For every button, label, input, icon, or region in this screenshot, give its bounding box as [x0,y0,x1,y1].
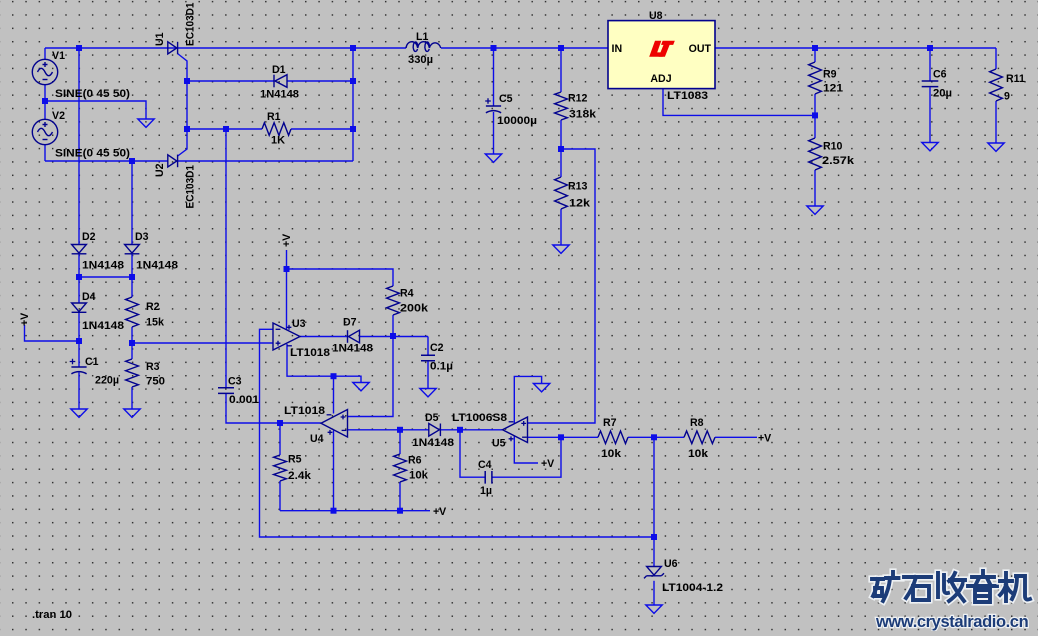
ground C1 [71,409,87,417]
wire divider tap to U5 +input [528,149,596,423]
svg-text:R3: R3 [146,361,160,373]
wire D3 to node [131,254,133,277]
svg-text:1N4148: 1N4148 [82,260,124,272]
wire R12 top lead [560,48,562,92]
diode D5 [429,424,441,437]
wire R1 row left [187,128,262,130]
wire C4 to U5 -input node [492,437,561,477]
wire R2/R3 node to U3 +input [132,342,273,344]
svg-text:R12: R12 [568,93,588,105]
svg-text:D7: D7 [343,317,357,329]
resistor R1 [262,123,291,136]
capacitor C5 plates [486,106,501,113]
wire top rail left (V1 to L1) [45,47,406,49]
node D2-D4 [76,274,82,280]
wire +V flag to U3 V+ [286,250,288,269]
svg-text:C3: C3 [228,376,242,388]
capacitor C1 plates [71,367,86,374]
svg-text:R7: R7 [603,417,617,429]
wire output node to C4 [460,430,485,477]
LT logo [649,41,675,57]
wire C5 top lead [493,48,495,106]
node D5/C4 [457,427,463,433]
svg-text:U6: U6 [664,558,678,570]
diode D3 [125,245,140,254]
svg-text:R5: R5 [288,454,302,466]
watermark crystalradio logo [872,572,901,601]
wire bottom rail (U2 to right) [178,160,353,162]
wire node to C1 [78,341,80,367]
diode D2 [72,245,87,254]
wire C2 top lead [427,337,429,356]
wire R11 to ground [995,101,997,143]
svg-text:www.crystalradio.cn: www.crystalradio.cn [875,613,1029,631]
wire R8 to +V flag [715,436,757,438]
op-amp U5 [503,417,528,443]
wire rail to U6 [653,537,655,566]
svg-text:0.001: 0.001 [229,394,259,406]
wire R2 to node [131,327,133,343]
svg-text:LT1083: LT1083 [667,90,708,102]
ground C2 [420,389,436,397]
diode D4 [72,303,87,312]
svg-text:D1: D1 [272,64,286,76]
svg-text:C5: C5 [499,93,513,105]
diode D7 [348,330,360,343]
svg-text:12k: 12k [569,198,590,210]
resistor R10 [809,138,822,170]
capacitor C4 [485,471,492,484]
node reference rail [651,534,657,540]
svg-text:U4: U4 [310,433,324,445]
wire U5 V- to ground [514,376,541,424]
C5 polarity mark [485,98,491,104]
resistor R6 [394,454,407,482]
node R6 [397,427,403,433]
wire R5 bottom lead [279,481,281,511]
svg-text:EC103D1: EC103D1 [185,165,197,209]
svg-text:LT1018: LT1018 [290,347,330,359]
wire node to D4 [78,277,80,303]
voltage source V2 [32,119,57,144]
wire top rail (L1 to U8 IN) [441,47,608,49]
wire node to R3 [131,343,133,359]
svg-text:+V: +V [19,313,31,326]
wire R13 to ground [560,209,562,245]
svg-text:121: 121 [823,83,843,95]
node V1-V2 [42,98,48,104]
wire x=132 to D3 [131,161,133,245]
svg-text:+V: +V [758,433,771,445]
svg-text:+V: +V [433,506,446,518]
wire C6 top lead [929,48,931,81]
op-amp U3 [273,323,300,350]
svg-text:R1: R1 [267,111,281,123]
ground C5 [485,154,501,162]
wire +V rail bottom [280,510,430,512]
node D1 right [350,78,356,84]
wire D4 to node [78,313,80,341]
svg-text:+V: +V [281,234,293,247]
svg-text:+V: +V [541,458,554,470]
wire R13 top lead [560,149,562,177]
svg-text:C2: C2 [430,342,444,354]
svg-text:1K: 1K [271,135,285,147]
capacitor C2 plates [421,355,435,361]
wire x=226 down to C3 [225,129,227,388]
wire C2 to ground [427,361,429,389]
wire R11 top lead [995,48,997,69]
svg-text:10000µ: 10000µ [497,115,537,127]
wire V2 top lead [44,101,46,120]
node +V distribution [284,266,290,272]
node +V/C1 [76,338,82,344]
wire U4 -input to D5 [348,429,429,431]
SCR U2 [168,155,178,168]
node U5 -in/C4/R7 [558,434,564,440]
svg-text:220µ: 220µ [95,375,119,387]
svg-text:ADJ: ADJ [650,73,671,85]
wire R9 bottom lead [814,94,816,115]
wire U6 to ground [653,581,655,605]
wire U8 ADJ to R9/R10 node [663,89,815,115]
wire U3 V+ pin [286,269,288,330]
svg-text:750: 750 [146,376,165,388]
ground U3/U4 power [353,383,369,391]
wire R4 bottom lead [392,315,394,336]
op-amp U4 [321,410,348,438]
svg-text:C4: C4 [478,459,492,471]
wire D1 row left [187,80,274,82]
svg-text:R8: R8 [690,417,704,429]
svg-text:1N4148: 1N4148 [260,89,299,101]
svg-text:V2: V2 [52,110,65,122]
resistor R11 [990,69,1003,101]
wire R7 to R8 [628,436,684,438]
wire U4 V+ pin to +V rail [333,431,335,511]
wire R10 to ground [814,170,816,206]
svg-text:R4: R4 [400,288,414,300]
svg-text:L1: L1 [416,31,428,43]
wire C5 to ground [493,112,495,154]
svg-text:R13: R13 [568,181,588,193]
wire R9 top lead [814,48,816,62]
svg-text:IN: IN [612,43,623,55]
C1 polarity mark [70,359,76,365]
resistor R5 [274,455,287,481]
regulator U8 LT1083 body [608,21,715,89]
wire V1-V2 midpoint to ground [45,101,146,119]
wire C1 to ground [78,373,80,410]
svg-text:LT1006S8: LT1006S8 [452,412,507,424]
svg-text:0.1µ: 0.1µ [430,361,453,373]
node ADJ/R9/R10 [812,112,818,118]
wire V1 top lead [44,48,46,60]
wire R5 top lead [279,423,281,455]
wire U5 -input to R7 [528,436,599,438]
svg-text:.tran 10: .tran 10 [32,609,72,621]
ground R11 [988,143,1004,151]
svg-text:R11: R11 [1006,73,1025,85]
resistor R2 [126,297,139,327]
voltage source V1 [32,59,57,84]
wire U5 V+ to +V flag [514,436,538,464]
wire +V flag to C1 node [25,325,80,341]
svg-text:U8: U8 [649,10,663,22]
wire feedback node to U4 +input [348,336,394,417]
wire C3 bottom to U4 output node [226,393,280,423]
wire U3 V- to ground [287,344,361,383]
capacitor C6 plates [922,81,939,87]
node R1 right [350,126,356,132]
svg-text:SINE(0 45 50): SINE(0 45 50) [55,148,130,160]
svg-text:15k: 15k [146,317,164,329]
wire D2 to node [78,254,80,277]
wire D1 row right [287,80,353,82]
wire R1 row right [291,128,353,130]
svg-text:1N4148: 1N4148 [82,320,124,332]
svg-text:D4: D4 [82,291,96,303]
wire U3 -input down to reference rail [260,329,655,537]
wire D7 to R4/C2 node [360,336,429,338]
svg-text:LT1018: LT1018 [284,405,325,417]
node gate/D1 [184,78,190,84]
wire node to R10 [814,115,816,138]
wire U4 output [280,422,321,424]
svg-text:EC103D1: EC103D1 [185,2,197,46]
wire U4 V- pin [333,376,335,413]
node D3-R2 [129,274,135,280]
node gate/R1 [184,126,190,132]
node R12-R13 [558,146,564,152]
svg-text:1N4148: 1N4148 [136,260,178,272]
svg-text:R9: R9 [823,69,837,81]
ground R3 [124,409,140,417]
wire +V to R4 top [287,269,394,286]
svg-text:330µ: 330µ [408,54,433,66]
ground R13 [553,245,569,253]
resistor R12 [555,92,568,120]
node R4/D7/C2 [390,333,396,339]
node D3 tap [129,158,135,164]
inductor L1 [406,42,441,52]
svg-text:C1: C1 [85,356,99,368]
ground C6 [922,143,938,151]
resistor R9 [809,62,822,94]
svg-text:10k: 10k [409,470,428,482]
wire U3 output to D7 [300,336,348,338]
svg-text:9: 9 [1004,91,1010,103]
node R6 rail [397,508,403,514]
wire bottom rail (V2 to U2) [45,160,168,162]
node R7/R8 [651,434,657,440]
wire R3 to ground [131,387,133,409]
svg-text:R10: R10 [823,141,843,153]
wire top rail (U8 OUT to R11) [715,47,996,49]
svg-text:OUT: OUT [689,43,712,55]
resistor R7 [598,431,628,444]
wire x=79 top to D2 [78,48,80,245]
svg-text:D5: D5 [425,412,439,424]
svg-text:R2: R2 [146,301,160,313]
svg-text:D2: D2 [82,231,96,243]
node top-left [76,45,82,51]
node C6 [927,45,933,51]
capacitor C3 plates [218,388,234,394]
resistor R8 [684,431,715,444]
wire node to R2 [131,277,133,297]
svg-text:C6: C6 [933,69,947,81]
wire R6 top lead [399,430,401,454]
node U3V-/U4V- [331,373,337,379]
diode D1 [274,75,287,88]
svg-text:20µ: 20µ [933,88,952,100]
svg-text:D3: D3 [135,231,149,243]
node C5 [491,45,497,51]
svg-text:U5: U5 [492,438,506,450]
svg-text:R6: R6 [408,455,422,467]
SCR U1 [168,42,178,54]
svg-text:1µ: 1µ [480,485,492,497]
ground V-sources [138,119,154,127]
node R12 [558,45,564,51]
node R9 [812,45,818,51]
node SCR output [350,45,356,51]
node R2-R3 [129,340,135,346]
svg-text:U3: U3 [292,318,306,330]
svg-text:1N4148: 1N4148 [332,343,373,355]
svg-text:V1: V1 [52,50,65,62]
wire C6 to ground [929,87,931,142]
wire R12 bottom lead [560,120,562,149]
wire U1 gate [178,54,188,157]
wire R6 bottom lead [399,482,401,511]
wire V1 bottom lead [44,85,46,102]
wire R7/R8 node down to reference rail [653,437,655,537]
svg-text:U1: U1 [154,32,166,46]
svg-text:318k: 318k [569,109,596,121]
ground U6 [646,605,662,613]
svg-text:10k: 10k [601,448,621,460]
resistor R13 [555,177,568,209]
resistor R3 [126,359,139,387]
svg-text:2.57k: 2.57k [822,155,854,167]
svg-text:U2: U2 [154,163,166,177]
node U4 out/R5 [277,420,283,426]
svg-text:LT1004-1.2: LT1004-1.2 [662,582,723,594]
svg-text:1N4148: 1N4148 [412,437,454,449]
svg-text:10k: 10k [688,448,708,460]
wire V2 bottom lead [44,145,46,162]
wire vertical bus x=353 [352,48,354,161]
node R1 left tap [223,126,229,132]
reference U6 LT1004-1.2 [644,567,664,579]
svg-text:2.4k: 2.4k [288,470,311,482]
node U4 V+ rail [331,508,337,514]
svg-text:SINE(0 45 50): SINE(0 45 50) [55,88,130,100]
resistor R4 [387,286,400,315]
ground U5 power [533,384,549,392]
wire D2/D3 row link [79,276,132,278]
svg-text:200k: 200k [400,303,428,315]
wire D5 to U5 output [440,429,502,431]
ground R10 [807,206,823,214]
